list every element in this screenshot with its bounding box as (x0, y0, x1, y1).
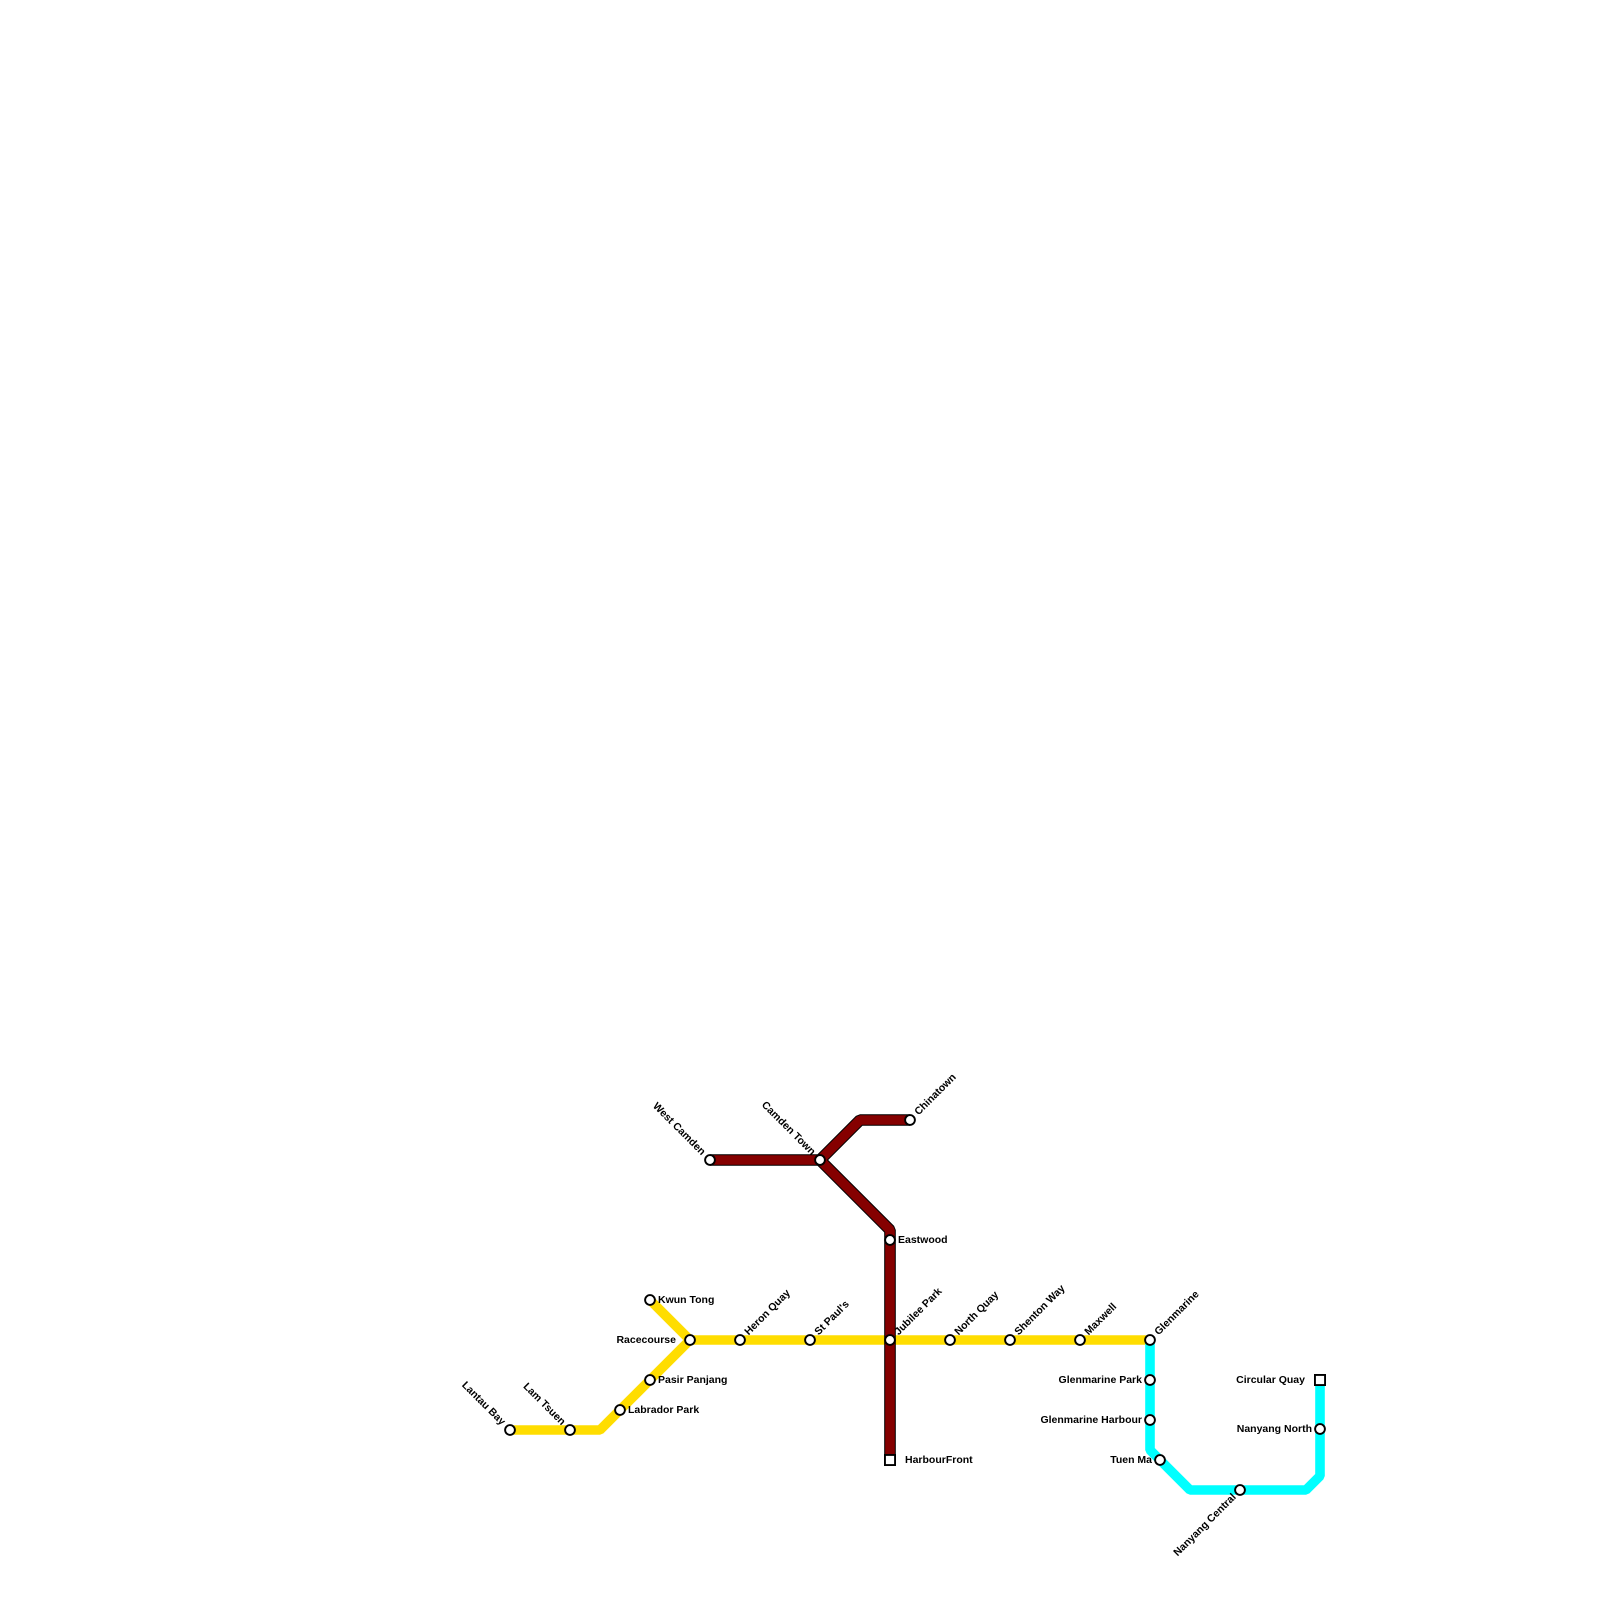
station marker: Camden Town (815, 1155, 825, 1165)
svg-text:Racecourse: Racecourse (616, 1334, 676, 1346)
line: Cyan Line (Glenmarine-Circular Quay) (1150, 1340, 1320, 1490)
svg-text:Pasir Panjang: Pasir Panjang (658, 1374, 727, 1386)
station marker: HarbourFront (885, 1455, 895, 1465)
station marker: Tuen Ma (1155, 1455, 1165, 1465)
station marker: Glenmarine Park (1145, 1375, 1155, 1385)
station marker: Circular Quay (1315, 1375, 1325, 1385)
station marker: West Camden (705, 1155, 715, 1165)
station marker: Chinatown (905, 1115, 915, 1125)
svg-text:Eastwood: Eastwood (898, 1234, 948, 1246)
line: Yellow Line branch (Racecourse-Kwun Tong) (650, 1300, 690, 1340)
svg-text:HarbourFront: HarbourFront (905, 1454, 973, 1466)
station marker: Kwun Tong (645, 1295, 655, 1305)
station marker: Jubilee Park (885, 1335, 895, 1345)
svg-text:Circular Quay: Circular Quay (1236, 1374, 1305, 1386)
station marker: Lam Tsuen (565, 1425, 575, 1435)
station marker: Shenton Way (1005, 1335, 1015, 1345)
line: Maroon Line casing (West Camden-Chinatown branch) (710, 1120, 910, 1160)
station marker: Labrador Park (615, 1405, 625, 1415)
line: Maroon Line (Camden Town-HarbourFront) (820, 1160, 890, 1460)
station marker: Nanyang Central (1235, 1485, 1245, 1495)
station marker: Maxwell (1075, 1335, 1085, 1345)
station marker: Nanyang North (1315, 1424, 1325, 1434)
station marker: Heron Quay (735, 1335, 745, 1345)
svg-text:Glenmarine Harbour: Glenmarine Harbour (1040, 1414, 1142, 1426)
svg-text:Tuen Ma: Tuen Ma (1110, 1454, 1152, 1466)
line: Maroon Line (West Camden-Chinatown branch) (710, 1120, 910, 1160)
station marker: Pasir Panjang (645, 1375, 655, 1385)
station marker: Eastwood (885, 1235, 895, 1245)
svg-text:Labrador Park: Labrador Park (628, 1404, 699, 1416)
station marker: Lantau Bay (505, 1425, 515, 1435)
station marker: Glenmarine (1145, 1335, 1155, 1345)
station marker: Racecourse (685, 1335, 695, 1345)
svg-text:Nanyang North: Nanyang North (1237, 1423, 1312, 1435)
svg-text:Glenmarine Park: Glenmarine Park (1059, 1374, 1143, 1386)
station marker: St Paul's (805, 1335, 815, 1345)
svg-text:Kwun Tong: Kwun Tong (658, 1294, 714, 1306)
line: Yellow Line (Lantau Bay-Glenmarine) (510, 1340, 1150, 1430)
line: Maroon Line casing (Camden Town-HarbourFront) (820, 1160, 890, 1460)
station marker: Glenmarine Harbour (1145, 1415, 1155, 1425)
station marker: North Quay (945, 1335, 955, 1345)
